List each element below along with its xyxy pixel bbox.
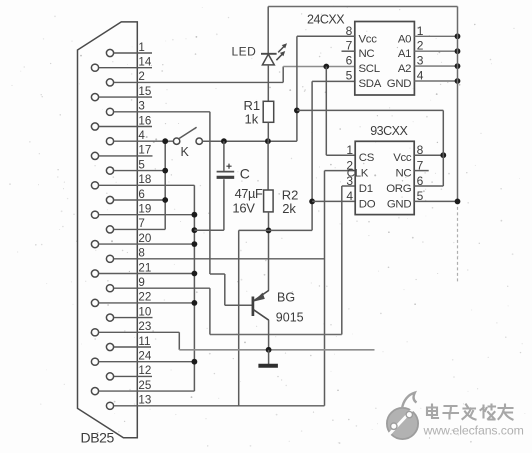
node pin6 junction <box>162 197 168 203</box>
DB25 pin 17 (circle, wire, number) <box>91 144 152 160</box>
wire LED to R1 <box>267 65 269 101</box>
wire DO stub <box>312 200 355 202</box>
svg-text:24: 24 <box>138 350 151 363</box>
node pin24 junction <box>192 359 198 365</box>
wire right bus vertical <box>457 7 459 202</box>
DB25 pin 15 (circle, wire, number) <box>91 85 152 101</box>
svg-text:SDA: SDA <box>359 78 382 90</box>
svg-text:15: 15 <box>138 85 151 98</box>
node capacitor-return junction <box>192 227 198 233</box>
svg-text:20: 20 <box>138 232 151 245</box>
svg-text:LED: LED <box>232 45 257 59</box>
node R1/R2 junction <box>265 138 271 144</box>
LED triangle <box>262 54 274 65</box>
wire DO-net down to pin13 wire <box>238 230 240 405</box>
wire CLK stub <box>325 170 356 172</box>
LED emission arrow 1 <box>276 51 285 60</box>
wire CS stub <box>326 154 355 156</box>
svg-text:47µF: 47µF <box>235 186 263 201</box>
svg-text:9015: 9015 <box>276 311 304 325</box>
node pin4 junction <box>162 138 168 144</box>
transistor Q1 collector lead <box>268 320 270 350</box>
capacitor C bottom lead <box>223 179 225 230</box>
transistor Q1 emitter arrowhead <box>253 293 264 302</box>
wire CLK vertical <box>324 171 326 406</box>
svg-text:2k: 2k <box>282 201 296 216</box>
svg-text:13: 13 <box>138 394 151 407</box>
wire pin23 jog vertical <box>178 332 180 350</box>
svg-text:GND: GND <box>387 78 411 90</box>
svg-text:23: 23 <box>138 320 151 333</box>
svg-text:11: 11 <box>138 335 150 348</box>
U2 ORG stub <box>414 185 443 187</box>
wire Vcc rail <box>202 140 297 142</box>
svg-text:8: 8 <box>138 247 144 260</box>
svg-text:Vcc: Vcc <box>393 152 412 164</box>
U1 pin7 stub (NC) <box>342 50 355 52</box>
node Vcc tee <box>294 108 300 114</box>
DB25 pin 25 (circle, wire, number) <box>91 379 194 395</box>
wire Vcc horizontal to 93CXX <box>297 109 443 111</box>
svg-text:DO: DO <box>359 198 376 210</box>
svg-text:16V: 16V <box>232 201 255 216</box>
svg-text:4: 4 <box>138 129 145 142</box>
DB25 pin 3 (circle, wire, number) <box>106 100 209 116</box>
node address bus pin 2 <box>455 48 461 54</box>
IC U2 93CXX box <box>355 141 414 214</box>
wire top rail <box>268 6 457 8</box>
svg-text:9: 9 <box>138 276 144 289</box>
DB25 connector body outline <box>78 22 138 438</box>
svg-text:17: 17 <box>138 144 151 157</box>
wire D1 rail horizontal <box>210 334 342 336</box>
svg-text:www.elecfans.com: www.elecfans.com <box>423 424 524 438</box>
U1 right pin 4 stub <box>414 80 457 82</box>
svg-text:6: 6 <box>138 188 144 201</box>
svg-text:CS: CS <box>359 152 375 164</box>
wire SDA stub <box>312 80 355 82</box>
U2 NC stub <box>414 170 429 172</box>
wire Vcc rail to R2 top <box>267 141 269 190</box>
ground symbol <box>258 350 278 366</box>
wire collector rail <box>179 349 374 351</box>
svg-text:8: 8 <box>346 24 353 38</box>
node pin5 junction <box>162 168 168 174</box>
svg-text:1: 1 <box>346 143 353 157</box>
svg-text:SCL: SCL <box>359 63 380 75</box>
resistor R2 body <box>264 190 274 212</box>
wire LED anode from top rail <box>267 7 269 54</box>
LED emission arrow 2 <box>278 43 287 52</box>
wire SCL to CS vertical <box>325 67 327 156</box>
DB25 pin 5 (circle, wire, number) <box>106 158 165 174</box>
node DO stub junction <box>309 199 315 205</box>
DB25 pin 9 (circle, wire, number) <box>106 276 209 292</box>
svg-text:18: 18 <box>138 173 151 186</box>
svg-text:93CXX: 93CXX <box>370 124 408 138</box>
node collector/ground junction <box>266 347 272 353</box>
DB25 pin 21 (circle, wire, number) <box>91 261 194 277</box>
node SCL junction <box>323 64 329 70</box>
capacitor C plus sign <box>226 164 231 169</box>
transistor Q1 collector diagonal <box>254 310 269 321</box>
DB25 pin 24 (circle, wire, number) <box>91 350 194 366</box>
DB25 pin 16 (circle, wire, number) <box>91 114 152 130</box>
svg-text:16: 16 <box>138 114 151 127</box>
wire right bus faint tail <box>457 201 459 283</box>
wire DO-net horizontal <box>239 229 312 231</box>
DB25 pin 1 (circle, wire, number) <box>106 41 152 57</box>
svg-text:21: 21 <box>138 261 151 274</box>
svg-text:6: 6 <box>346 54 353 68</box>
DB25 pin 13 (circle, wire, number) <box>106 394 324 410</box>
resistor R1 body <box>263 101 274 122</box>
svg-text:NC: NC <box>395 168 411 180</box>
node address bus pin 1 <box>455 33 461 39</box>
svg-text:10: 10 <box>138 305 151 318</box>
svg-text:K: K <box>181 145 190 159</box>
U1 right pin 2 stub <box>414 50 457 52</box>
wire SCL net horizontal <box>283 66 355 68</box>
node address bus pin 3 <box>455 63 461 69</box>
svg-text:7: 7 <box>138 217 144 230</box>
node pin19 junction <box>192 212 198 218</box>
svg-text:A2: A2 <box>398 63 411 75</box>
svg-text:A1: A1 <box>398 48 411 60</box>
capacitor C top lead <box>223 141 225 171</box>
svg-text:5: 5 <box>346 69 353 83</box>
svg-text:1k: 1k <box>245 112 259 127</box>
svg-text:GND: GND <box>387 198 411 210</box>
node pin22 junction <box>192 300 198 306</box>
svg-text:BG: BG <box>277 291 295 305</box>
wire ORG-Vcc vertical <box>442 110 444 186</box>
svg-text:1: 1 <box>138 41 144 54</box>
svg-text:3: 3 <box>346 174 353 188</box>
DB25 pin 11 (circle, wire, number) <box>106 335 151 351</box>
wire pin3 vertical <box>209 112 211 274</box>
wire U1 Vcc vertical <box>296 36 298 141</box>
svg-text:12: 12 <box>138 364 151 377</box>
U1 right pin 3 stub <box>414 65 457 67</box>
transistor Q1 emitter diagonal <box>254 290 269 301</box>
U1 pin8 stub (Vcc) <box>297 35 355 37</box>
switch K right contact <box>196 138 202 144</box>
watermark text 电子发烧友 (stylized) <box>427 405 513 420</box>
DB25 pin 20 (circle, wire, number) <box>91 232 194 248</box>
wire bus pins 4-5-6-7 vertical <box>164 141 166 229</box>
U2 Vcc stub <box>414 154 443 156</box>
wire base <box>225 304 252 306</box>
switch K left contact <box>173 138 179 144</box>
wire pin3 jog horizontal <box>210 273 225 275</box>
svg-text:D1: D1 <box>359 183 373 195</box>
DB25 pin 19 (circle, wire, number) <box>91 203 194 219</box>
node U2 Vcc junction <box>440 152 446 158</box>
transistor Q1 base bar <box>252 297 255 317</box>
LED cathode bar <box>261 53 277 55</box>
node pin20 junction <box>192 241 198 247</box>
watermark logo (elecfans) <box>387 408 418 439</box>
switch K lever <box>179 127 196 138</box>
capacitor C top plate <box>217 171 235 173</box>
wire capacitor return to GND bus <box>194 229 224 231</box>
svg-text:A0: A0 <box>398 33 411 45</box>
U1 right pin 1 stub <box>414 35 457 37</box>
svg-text:14: 14 <box>138 56 151 69</box>
svg-text:ORG: ORG <box>386 183 411 195</box>
node U2 GND on right bus <box>455 199 461 205</box>
svg-text:24CXX: 24CXX <box>307 13 345 27</box>
DB25 pin 4 (circle, wire, number) <box>106 129 173 145</box>
DB25 pin 23 (circle, wire, number) <box>91 320 179 336</box>
svg-text:NC: NC <box>359 48 375 60</box>
svg-text:Vcc: Vcc <box>359 33 378 45</box>
node R2-bottom / DO-net junction <box>266 228 272 234</box>
wire D1 bracket vertical <box>341 186 343 335</box>
svg-text:C: C <box>240 166 250 182</box>
node pin21 junction <box>192 271 198 277</box>
wire pin3 jog vertical <box>224 274 226 305</box>
wire pin2 jog vertical <box>282 67 284 83</box>
wire GND bus vertical (pins 18-25) <box>193 185 195 391</box>
svg-text:5: 5 <box>138 158 144 171</box>
DB25 pin 18 (circle, wire, number) <box>91 173 194 189</box>
DB25 pin 10 (circle, wire, number) <box>106 305 152 321</box>
wire pin9 vertical <box>209 288 211 334</box>
DB25 pin 22 (circle, wire, number) <box>91 291 194 307</box>
capacitor C bottom plate <box>217 176 235 179</box>
svg-text:3: 3 <box>138 100 144 113</box>
wire R2 bottom to emitter <box>268 212 270 291</box>
DB25 pin 6 (circle, wire, number) <box>106 188 165 204</box>
svg-text:2: 2 <box>138 70 144 83</box>
wire SDA down to DO <box>311 81 313 230</box>
svg-text:19: 19 <box>138 203 151 216</box>
svg-text:7: 7 <box>346 39 353 53</box>
svg-text:22: 22 <box>138 291 151 304</box>
DB25 pin 2 (circle, wire, number) <box>106 70 283 86</box>
wire D1 stub <box>342 185 355 187</box>
svg-text:4: 4 <box>346 189 353 203</box>
svg-text:DB25: DB25 <box>81 430 115 446</box>
DB25 pin 14 (circle, wire, number) <box>91 56 152 72</box>
U2 GND stub <box>414 200 457 202</box>
wire R1 bottom to Vcc rail <box>267 122 269 141</box>
node capacitor top junction <box>221 138 227 144</box>
node address bus pin 4 <box>455 78 461 84</box>
DB25 pin 8 (circle, wire, number) <box>106 247 324 263</box>
IC U1 24CXX box <box>355 22 415 96</box>
DB25 pin 7 (circle, wire, number) <box>106 217 165 233</box>
svg-text:25: 25 <box>138 379 151 392</box>
DB25 pin 12 (circle, wire, number) <box>106 364 152 380</box>
